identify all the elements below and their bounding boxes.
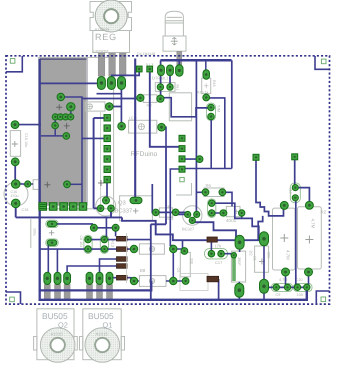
capacitor C16 silk circle <box>4 182 28 212</box>
wire bar3 left to Q1 leg2 <box>100 259 117 273</box>
transistor Q2 labels <box>42 311 68 337</box>
svg-text:R13: R13 <box>111 240 115 247</box>
wire R1 bottom pad down <box>285 272 287 287</box>
wire upper bottom bus <box>39 281 152 290</box>
wire C8 top row through bar1 <box>88 239 151 241</box>
svg-text:100u: 100u <box>33 228 37 236</box>
pad module C <box>52 122 59 129</box>
labels above bottom jumpers <box>279 278 302 282</box>
regulator REG leg 2 <box>109 53 116 76</box>
pad C9 bottom <box>182 278 189 285</box>
hole marker TL <box>10 59 15 64</box>
silk box around D5 bottom area <box>180 274 208 291</box>
svg-text:C9: C9 <box>176 268 180 273</box>
pad module bottom squares <box>39 203 87 211</box>
pad REG-3 <box>118 77 126 90</box>
pad D6 left oval <box>220 210 227 216</box>
wire corner BR <box>316 291 329 303</box>
pad module A <box>57 93 64 100</box>
svg-text:BU505: BU505 <box>88 311 114 321</box>
wire J10 bottom down between R1 R2 <box>295 198 297 287</box>
jumper TJ1 silk <box>207 103 221 120</box>
svg-text:+300: +300 <box>267 250 271 258</box>
resistor R2 silk box <box>298 207 327 269</box>
pad BL1 b <box>167 84 173 90</box>
wire jumper C11b down to Q2 legs <box>47 245 49 273</box>
resistor E5 brown body <box>207 237 217 242</box>
svg-text:R16: R16 <box>212 80 216 87</box>
pad BL1 a <box>157 84 163 90</box>
pad LED right <box>158 123 166 131</box>
pad R1 bottom <box>282 268 290 276</box>
module U3 RFduino gray body <box>39 58 87 205</box>
transistor Q3 silk circle <box>96 196 139 216</box>
wire J10 top to R2 top pad <box>295 188 309 203</box>
jumper J10 silk <box>289 183 301 203</box>
pad U2 a <box>209 200 215 206</box>
pad Q2 leg ovals <box>44 272 71 284</box>
wire corner TR <box>315 56 330 69</box>
wire bar5 row <box>111 278 132 281</box>
pad connector squares x182 <box>179 135 185 181</box>
pad C17 b <box>218 250 225 257</box>
svg-text:C8 104: C8 104 <box>79 236 83 248</box>
svg-text:Q1: Q1 <box>103 321 113 330</box>
pad pair y227.8 right <box>112 224 119 231</box>
pad E6 left <box>153 209 160 216</box>
regulator REG labels <box>94 27 117 53</box>
svg-text:C9: C9 <box>276 293 281 297</box>
svg-text:C15 10u: C15 10u <box>24 133 28 147</box>
resistor R4 silk box (left of module pads) <box>85 102 105 111</box>
svg-text:C16: C16 <box>22 208 29 212</box>
pad R1 top <box>280 201 288 209</box>
pad DTR-a <box>158 65 165 76</box>
jumper U2 silk rounded box <box>208 199 216 218</box>
wire C9 top pad drop <box>182 240 184 250</box>
pad TJ1 a <box>208 104 215 111</box>
pad H3 right <box>157 95 164 102</box>
pad square T1 <box>253 154 259 160</box>
wire jumper row horizontal y287.5 <box>264 286 307 288</box>
wire long vertical x135 to oval H <box>134 59 136 201</box>
pad REG-2 <box>107 77 115 90</box>
svg-text:4.7M: 4.7M <box>286 250 291 260</box>
crystal Y1 big silk box <box>169 93 191 121</box>
diode D1 silk box vertical <box>253 246 271 272</box>
wire TJ1 pad2 down left loop <box>210 117 212 169</box>
wire x173 vertical to TJ1 <box>160 98 207 117</box>
svg-text:BU505: BU505 <box>42 311 68 321</box>
regulator REG leg 1 <box>98 53 105 76</box>
svg-text:REG: REG <box>95 32 117 42</box>
pad LED left <box>118 122 126 130</box>
svg-text:R6: R6 <box>206 183 212 188</box>
pad C15 bottom <box>11 158 19 166</box>
wire LED right pad y146 <box>162 127 167 147</box>
svg-text:R2: R2 <box>321 210 327 215</box>
wire C15 top pad into module <box>15 124 41 126</box>
connector BL1 silk box and pads <box>155 83 179 92</box>
pad E7 left <box>130 245 137 252</box>
wire module pad B down <box>70 107 72 117</box>
wire C16 pads link <box>16 183 33 185</box>
pad D6 right <box>239 210 245 216</box>
module plus marks <box>44 104 104 188</box>
wire big ovals to bus <box>239 244 264 300</box>
pad Q3 top <box>103 197 110 204</box>
pad module B <box>67 103 75 111</box>
pad Q3 right <box>108 205 115 212</box>
svg-text:Q2: Q2 <box>58 321 68 330</box>
diode D4 silk outline <box>163 11 186 51</box>
connector DTR labels top <box>146 63 169 81</box>
pad R16 bottom <box>203 94 210 101</box>
pad module D <box>63 133 70 140</box>
resistor E1 brown body <box>117 236 128 241</box>
resistor E2 brown body <box>117 247 128 252</box>
wire square T2 down to J10 <box>294 160 296 185</box>
wire E6 chain to Q4 left pad <box>159 212 188 214</box>
pad H3 left <box>137 94 144 101</box>
regulator REG silk outline <box>90 0 132 53</box>
pad pair y227.8 left <box>90 224 97 231</box>
transistor Q1 labels <box>88 311 114 337</box>
jumper C11 silk ovals left mid <box>31 219 58 248</box>
resistor R1 silk box <box>273 208 296 270</box>
pad Q4 left <box>185 211 191 217</box>
pad C16 aux <box>25 181 31 187</box>
jumper C8 silk boxes <box>79 235 109 253</box>
wire R16 pads vertical <box>205 60 207 98</box>
resistor E7 silk box <box>139 244 164 254</box>
wire Q3 right pad down to y217.5 <box>110 211 112 217</box>
transistor Q2 legs <box>44 285 70 300</box>
wire x152 down to E6 left pad <box>152 184 156 212</box>
wire Q3 left pad left vertical <box>94 118 101 208</box>
pad J10 a <box>292 185 298 191</box>
wire oval H right small <box>136 199 142 201</box>
pad C16 bottom <box>11 199 20 208</box>
svg-text:TJM: TJM <box>217 105 221 112</box>
wire bus drop x197 long to Q4 <box>195 60 197 211</box>
wire x150.8 long down <box>151 147 166 300</box>
wire E8 pads row <box>134 280 184 282</box>
jumper C10J silk box bottom right <box>294 283 313 296</box>
pad E7 right <box>170 245 177 252</box>
pad R6 right <box>219 189 226 196</box>
wire U2 jumper top pad right then staircase to D1 <box>212 203 259 234</box>
pad module row4 <box>52 114 74 120</box>
wire module pad C down and left <box>41 117 66 136</box>
wire REG pad3 down to LED pad <box>97 84 122 126</box>
wire bar4 left to Q1 leg1 <box>67 266 116 273</box>
pad U2 b <box>209 210 215 216</box>
pad big oval D1 bottom <box>260 279 269 293</box>
wire sq4 row horizontal <box>182 168 232 170</box>
pad C17 a <box>208 250 215 257</box>
wire module pad A right and down to square pad 5 <box>61 97 82 206</box>
transistor Q2 silk outline <box>34 309 78 363</box>
pad jumper C11 b <box>47 240 57 245</box>
pad R2 bottom <box>305 268 313 276</box>
pad square S2 <box>147 66 153 72</box>
resistor E3 brown body <box>117 257 128 262</box>
pad J10 b <box>292 195 298 201</box>
svg-text:17h: 17h <box>215 244 222 249</box>
IC C18 silk box vertical <box>231 251 253 283</box>
connector E5 silk box left of C16 <box>33 180 40 190</box>
resistor E8 silk box <box>139 268 166 286</box>
wire R15 pad right then down x224.8 <box>207 98 225 169</box>
diode D6 silk box <box>226 206 240 223</box>
resistor E3b brown body <box>117 264 128 269</box>
pad E6 right <box>172 209 179 216</box>
pad Q4 mid <box>194 211 200 217</box>
wire branch down to D1 top oval <box>258 216 263 240</box>
wire R6 pads to neighbors <box>196 192 232 206</box>
wire sq3 left to module edge <box>82 137 104 139</box>
pad Q4 bottom <box>189 217 195 223</box>
transistor Q4 silk circle <box>182 206 202 232</box>
svg-text:100: 100 <box>297 293 303 297</box>
pad R4 <box>106 103 114 111</box>
wire square T1 down staircase to R1 pad <box>256 160 284 216</box>
wire square S2 down then right y146.8 <box>150 72 182 147</box>
svg-text:4.7M: 4.7M <box>311 219 316 229</box>
wire Q4 bottom pad staircase right <box>194 222 240 239</box>
wire top bus y60 <box>160 59 231 62</box>
svg-text:A1015: A1015 <box>51 332 64 337</box>
svg-text:470u: 470u <box>11 194 19 198</box>
resistor E9 brown body <box>207 276 219 282</box>
wire brown bar B4 down to bus <box>218 279 220 300</box>
pad R6 left <box>202 189 209 196</box>
svg-text:C17: C17 <box>215 260 223 265</box>
wire U2 jumper bottom pad right <box>212 213 242 218</box>
hole marker BR <box>321 297 326 302</box>
svg-text:BC337: BC337 <box>115 208 133 215</box>
pad big oval D1 top <box>260 232 269 246</box>
silk corner lines near Q4 <box>176 183 192 195</box>
wire diode D4 pad up to bus <box>178 60 180 70</box>
svg-text:A1015: A1015 <box>96 332 109 337</box>
wire module trace y83.6 to REG pad1 <box>40 82 101 84</box>
pad R2 top <box>305 201 313 209</box>
capacitor C9 silk box vertical <box>176 252 194 276</box>
diode D3 silk box near Q3 <box>120 196 153 221</box>
wire module sq7 down to Q3 top pad <box>106 183 108 198</box>
pad oval H <box>130 197 142 203</box>
pad C8 jumper pads <box>85 236 108 252</box>
pad square S1 <box>136 66 142 72</box>
svg-text:J10: J10 <box>289 188 293 194</box>
pad C16 top <box>11 180 20 189</box>
resistor E6 silk box and labels <box>159 204 173 221</box>
pad square T2 <box>292 154 298 160</box>
wire R2 bottom pad down <box>308 272 310 287</box>
wire x57 down to Q2 leg2 <box>56 249 58 272</box>
svg-text:E8: E8 <box>140 268 146 273</box>
LED D3 silk box <box>129 115 157 133</box>
pad E8 left <box>130 277 137 284</box>
svg-text:BL1: BL1 <box>176 85 180 91</box>
svg-text:D1: D1 <box>253 256 257 261</box>
svg-text:BC327: BC327 <box>182 227 195 232</box>
pad REG-1 <box>97 77 105 90</box>
wire R4 pad left <box>94 117 104 119</box>
pad module right column squares <box>104 115 110 183</box>
wire corner TL <box>6 56 22 72</box>
regulator REG leg 3 <box>119 53 126 76</box>
pad D4 <box>176 65 183 76</box>
capacitor C17 silk <box>204 244 227 265</box>
resistor E4 brown body <box>117 275 128 280</box>
wire jumper C11a right <box>56 224 92 227</box>
wire bottom bus <box>39 287 307 300</box>
pad bottom jumper pads <box>273 284 310 290</box>
pad jumper C11 a <box>47 221 57 226</box>
silk line right of brown bars <box>125 233 127 283</box>
wire REG pad2 up and right to square S1 <box>112 72 139 81</box>
pad R16 top <box>203 70 210 79</box>
wire module left edge long vertical <box>39 59 41 299</box>
pad C9 top <box>181 248 188 255</box>
board outline dotted border <box>6 56 330 304</box>
pad Q1 leg ovals <box>86 272 113 284</box>
wire staircase from y217.5 to C18 oval <box>122 217 264 240</box>
pad C15 top <box>11 121 19 129</box>
module U3 silk outline <box>39 57 114 208</box>
resistor R6 silk box <box>204 183 224 196</box>
transistor Q1 legs <box>87 285 113 300</box>
svg-text:330: 330 <box>190 258 194 264</box>
pad Q3 left <box>97 205 104 212</box>
capacitor C15 silk <box>10 131 28 157</box>
wire H3 left pad across module <box>82 98 140 100</box>
pad C18 mark <box>231 253 236 258</box>
wire C15 bottom to C16 top <box>14 162 16 184</box>
wire module pad E to right edge <box>67 183 82 185</box>
pad module E <box>64 181 71 188</box>
pad TJ1 b <box>208 113 215 120</box>
wire y249.1 bus from module edge through C8 bar2 to E7 <box>40 248 134 250</box>
wire corner BL <box>6 292 21 304</box>
pad big oval C18 top <box>235 235 244 249</box>
wire sq4 left to x170 down <box>170 169 182 246</box>
wire C16 bottom then long horizontal y217.5 <box>16 203 122 217</box>
pad DTR-b <box>167 65 174 76</box>
wire E7 right to C9 top <box>173 249 182 250</box>
wire bus drop x160.6 down to H3 <box>161 60 170 98</box>
wire C17 pads traces <box>211 242 231 254</box>
hole marker BL <box>10 297 15 302</box>
wire bus drop x231.8 to y168.5 <box>231 60 233 168</box>
pad E8 right <box>170 277 177 284</box>
transistor Q1 silk outline <box>80 309 125 363</box>
resistor R16 silk vertical near diode pad <box>202 78 216 94</box>
svg-text:390F: 390F <box>237 257 241 266</box>
pad conn x199 <box>196 156 203 163</box>
jumper C9J silk box bottom left <box>272 283 293 296</box>
wire E7 right pad down to E8 right pad <box>172 250 174 279</box>
wire sq3 to pad <box>182 158 200 160</box>
connector H3 silk box <box>143 95 157 108</box>
wire pad pair y227.8 <box>94 228 116 237</box>
diode D4 leg <box>177 51 182 65</box>
pad big oval C18 bottom <box>235 283 244 297</box>
wire x106.4 down from y217.5 to C8 <box>104 217 106 239</box>
hole marker TR <box>321 59 326 64</box>
